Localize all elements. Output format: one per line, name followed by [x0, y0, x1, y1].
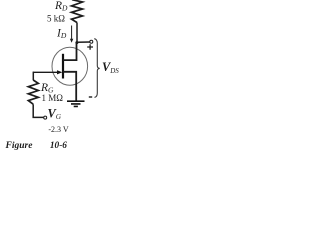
transistor Q1 source lead [63, 72, 76, 101]
minus sign [89, 96, 92, 98]
node junction dot [75, 41, 78, 44]
transistor Q1 drain lead [63, 43, 77, 61]
wire drain-top [76, 23, 78, 43]
ground [67, 101, 85, 106]
resistor RD [72, 0, 83, 22]
svg-text:ID: ID [56, 27, 67, 40]
svg-text:VG: VG [48, 107, 62, 122]
wire RG bottom [33, 104, 43, 117]
transistor Q1 circle [52, 47, 88, 85]
resistor RG [28, 80, 38, 104]
svg-text:VDS: VDS [102, 60, 119, 75]
brace VDS [94, 39, 100, 98]
transistor Q1 channel bar [62, 54, 64, 79]
transistor Q1 gate arrowhead [57, 70, 62, 74]
plus sign [87, 44, 93, 49]
svg-text:10-6: 10-6 [50, 141, 67, 150]
wire gate corner down [32, 72, 34, 81]
svg-text:1 MΩ: 1 MΩ [42, 93, 64, 103]
svg-text:-2.3 V: -2.3 V [48, 125, 69, 134]
terminal circle VG [44, 116, 47, 119]
wire to VDS terminal [77, 41, 90, 43]
wire gate [33, 71, 59, 73]
current arrow ID [71, 26, 73, 40]
svg-text:5 kΩ: 5 kΩ [47, 14, 65, 24]
terminal circle drain [90, 40, 93, 43]
svg-text:RD: RD [54, 0, 68, 13]
svg-text:Figure: Figure [5, 141, 34, 150]
